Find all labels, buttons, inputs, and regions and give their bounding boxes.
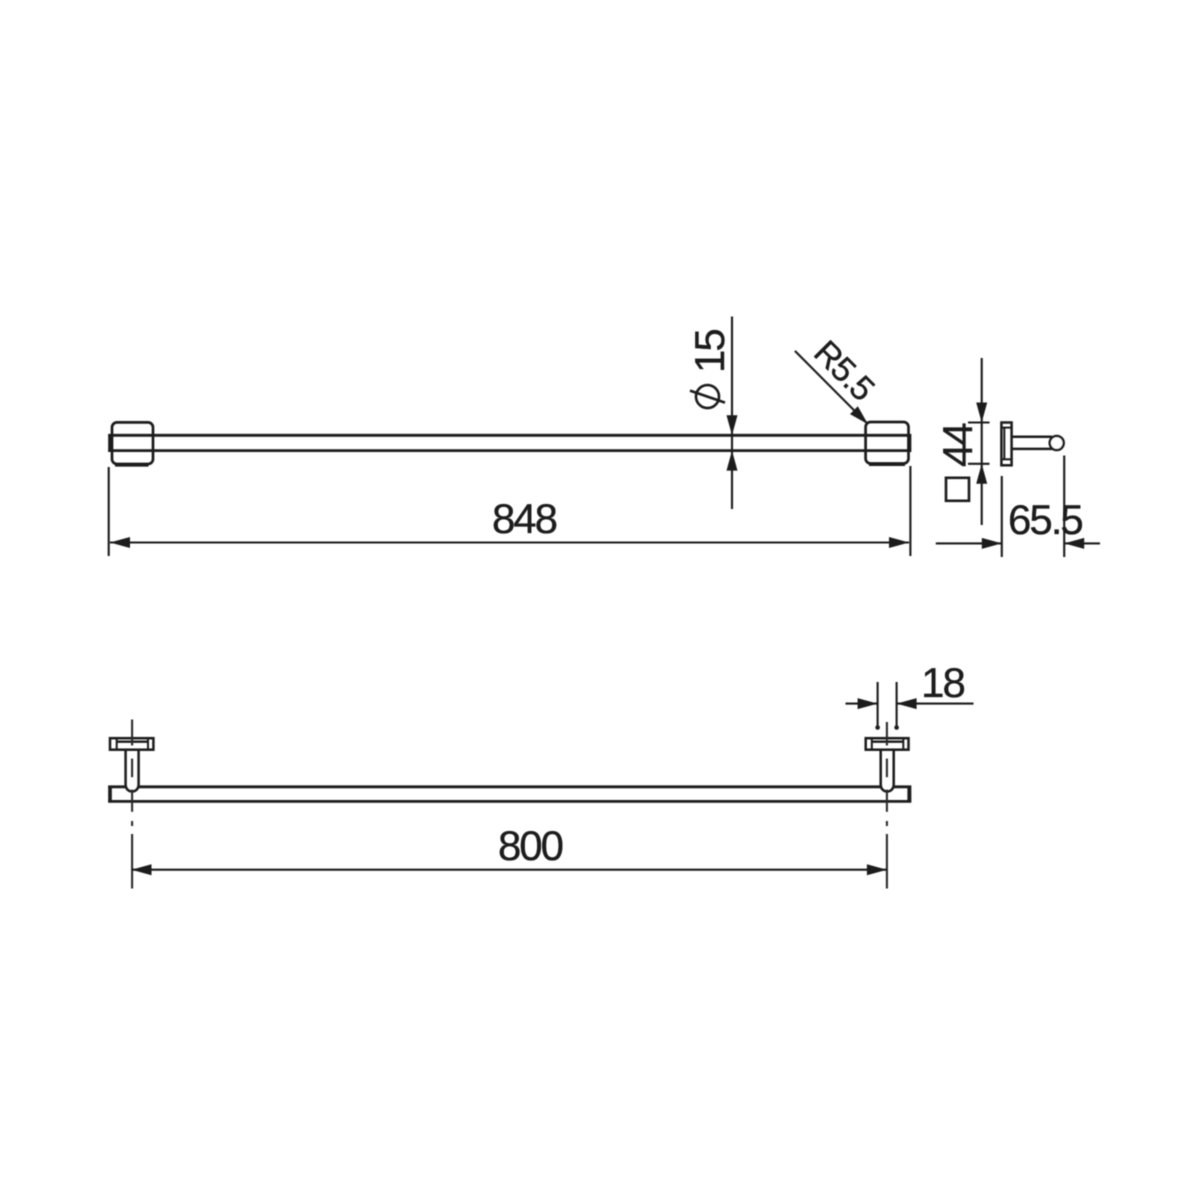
svg-text:15: 15 [686, 330, 733, 373]
svg-text:18: 18 [921, 659, 964, 706]
svg-text:800: 800 [498, 822, 563, 869]
svg-text:44: 44 [934, 423, 981, 467]
svg-text:65.5: 65.5 [1008, 496, 1082, 543]
svg-text:848: 848 [492, 495, 557, 542]
